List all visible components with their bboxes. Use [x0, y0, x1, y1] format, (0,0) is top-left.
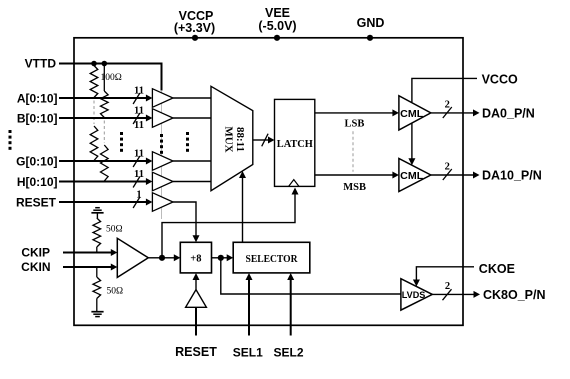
latch block	[275, 99, 315, 186]
svg-text:LATCH: LATCH	[277, 138, 313, 150]
svg-text:VCCO: VCCO	[482, 72, 518, 86]
resistor R5 50ohm (CKIP termination)	[93, 218, 101, 253]
svg-text:1: 1	[136, 190, 141, 201]
clock buffer U8	[117, 238, 148, 277]
svg-text:MSB: MSB	[343, 182, 366, 193]
svg-text:SEL2: SEL2	[273, 345, 303, 359]
bus slash RESET	[133, 197, 140, 208]
svg-text:(+3.3V): (+3.3V)	[174, 21, 215, 35]
wire divider output	[212, 257, 221, 259]
net label LSB	[345, 118, 365, 129]
node divider output	[218, 255, 224, 261]
value label 50ohm (R6)	[107, 287, 124, 297]
bus width label 11 (ellipsis)	[134, 120, 144, 131]
bus width label 11 (B[0:10])	[134, 106, 144, 117]
value label 50ohm (R5)	[106, 224, 123, 234]
wire reset buffer to divider	[193, 273, 200, 290]
wire RESET buffer to divider	[173, 202, 200, 242]
wire clock buffer output	[148, 257, 162, 259]
wire dashed continuation (column 2)	[103, 121, 105, 144]
pin label RESET	[16, 195, 57, 209]
svg-text:CK8O_P/N: CK8O_P/N	[483, 288, 546, 302]
ground (flipped, above R5)	[91, 208, 103, 218]
latch clock caret	[289, 180, 299, 187]
ground (below R6)	[91, 312, 103, 317]
pin label SEL2	[273, 345, 303, 359]
svg-text:50Ω: 50Ω	[107, 287, 124, 297]
svg-text:SEL1: SEL1	[233, 345, 263, 359]
ellipsis (buffer column)	[160, 134, 163, 154]
wire RESET bottom entry	[195, 307, 197, 335]
pin label SEL1	[233, 345, 263, 359]
wire divider to LVDS	[221, 258, 401, 294]
pin label CKIP	[21, 245, 50, 259]
resistor R6 50ohm (CKIN termination)	[93, 267, 101, 312]
bus width label 2 (DA10)	[445, 162, 450, 173]
svg-text:RESET: RESET	[175, 345, 217, 359]
wire input G[0:10]	[59, 158, 152, 165]
pin label B[0:10]	[17, 111, 58, 125]
wire SEL2	[287, 273, 294, 336]
svg-text:2: 2	[445, 162, 450, 173]
wire clock to divider	[162, 254, 180, 261]
svg-text:SELECTOR: SELECTOR	[246, 253, 298, 265]
pin label H[0:10]	[17, 175, 58, 189]
node clock junction	[159, 255, 165, 261]
svg-text:LVDS: LVDS	[402, 290, 426, 300]
wire selector to MUX	[239, 171, 246, 242]
wire VTTD rail continuation (faint)	[161, 91, 163, 219]
buffer U2	[152, 109, 173, 128]
svg-text:11: 11	[134, 169, 144, 180]
svg-text:RESET: RESET	[16, 195, 57, 209]
wire MUX to LATCH	[253, 137, 275, 144]
pin label VTTD	[25, 57, 57, 71]
wire buffer U1 to MUX	[173, 97, 212, 99]
svg-text:CKIN: CKIN	[21, 260, 50, 274]
wire divider to selector	[221, 254, 233, 261]
svg-text:H[0:10]: H[0:10]	[17, 175, 58, 189]
svg-text:11: 11	[134, 149, 144, 160]
pin label G[0:10]	[16, 154, 57, 168]
wire dashed continuation (column 1)	[93, 101, 95, 125]
pin label VCCO	[482, 72, 518, 86]
wire input RESET	[59, 199, 152, 206]
bus width label 11 (H[0:10])	[134, 169, 144, 180]
wire input B[0:10]	[59, 115, 152, 122]
cml buffer U7	[399, 159, 431, 192]
svg-text:CKIP: CKIP	[21, 245, 50, 259]
bus slash DA10	[443, 169, 452, 180]
bus slash B[0:10]	[133, 113, 140, 124]
bus slash A[0:10]	[133, 93, 140, 104]
svg-text:11: 11	[134, 106, 144, 117]
wire input CKIN	[63, 264, 117, 271]
ellipsis dashed (LSB to MSB)	[352, 131, 354, 172]
svg-text:DA10_P/N: DA10_P/N	[482, 168, 542, 182]
svg-text:11: 11	[134, 120, 144, 131]
svg-text:VTTD: VTTD	[25, 57, 57, 71]
bus width label 2 (DA0)	[445, 100, 450, 111]
bus width label 11 (A[0:10])	[134, 86, 144, 97]
svg-text:G[0:10]: G[0:10]	[16, 154, 57, 168]
lvds buffer U10	[401, 279, 432, 310]
cml buffer U6	[399, 96, 431, 130]
wire output DA0	[431, 109, 480, 116]
wire input A[0:10]	[59, 95, 152, 102]
svg-text:11: 11	[134, 86, 144, 97]
svg-text:CML: CML	[400, 108, 424, 120]
power pin VEE	[258, 6, 296, 41]
node VTTD-R2	[102, 61, 108, 67]
wire CKOE	[413, 267, 474, 287]
pin label CK8O_P/N	[483, 288, 546, 302]
bus slash DA0	[443, 107, 452, 118]
svg-text:A[0:10]: A[0:10]	[17, 91, 58, 105]
resistor R3 (to G)	[90, 126, 98, 161]
svg-text:MUX: MUX	[223, 126, 235, 152]
wire VTTD rail	[59, 64, 162, 91]
svg-text:CML: CML	[400, 170, 424, 182]
svg-text:B[0:10]: B[0:10]	[17, 111, 58, 125]
pin label CKOE	[479, 262, 515, 276]
wire input CKIP	[63, 249, 117, 256]
buffer U9 (reset, open)	[186, 290, 207, 308]
svg-text:DA0_P/N: DA0_P/N	[482, 106, 535, 120]
pin label DA0_P/N	[482, 106, 535, 120]
svg-text:2: 2	[445, 281, 450, 292]
pin label DA10_P/N	[482, 168, 542, 182]
wire MSB (LATCH to CML U7)	[315, 172, 399, 179]
svg-text:+8: +8	[190, 253, 201, 264]
bus slash MUX output	[262, 134, 268, 147]
buffer U4	[152, 172, 173, 191]
bus slash G[0:10]	[133, 156, 140, 167]
wire input H[0:10]	[59, 178, 152, 185]
buffer U3	[152, 152, 173, 171]
node VTTD-R1	[91, 61, 97, 67]
wire output CK8O	[432, 291, 480, 298]
bus width label 2 (CK8O)	[445, 281, 450, 292]
pin label A[0:10]	[17, 91, 58, 105]
mux 88:11	[211, 86, 253, 190]
bus slash H[0:10]	[133, 177, 140, 188]
power pin VCCP	[174, 9, 215, 41]
pin label CKIN	[21, 260, 50, 274]
power pin GND	[357, 16, 385, 41]
divider block +8	[180, 242, 211, 273]
bus width label 11 (G[0:10])	[134, 149, 144, 160]
svg-text:GND: GND	[357, 16, 385, 30]
ellipsis (resistor column)	[120, 132, 123, 152]
svg-text:88:11: 88:11	[234, 127, 246, 152]
chip boundary box	[74, 38, 463, 326]
wire VCCO	[412, 78, 477, 102]
wire buffer U3 to MUX	[173, 160, 212, 162]
wire LSB (LATCH to CML U6)	[315, 109, 399, 116]
bus width label 1 (RESET)	[136, 190, 141, 201]
svg-text:50Ω: 50Ω	[106, 224, 123, 234]
svg-text:CKOE: CKOE	[479, 262, 515, 276]
ellipsis (mux inputs)	[186, 132, 189, 152]
buffer U1	[152, 89, 173, 108]
wire clock to latch	[162, 188, 299, 258]
resistor R1 100ohm (VTTD to A)	[90, 66, 98, 98]
svg-text:VEE: VEE	[265, 6, 290, 20]
value label 100ohm	[101, 73, 122, 83]
resistor R4 (to H)	[101, 145, 109, 181]
wire buffer U2 to MUX	[173, 117, 212, 119]
net label MSB	[343, 182, 366, 193]
wire CML chain (U6 to U7)	[408, 123, 415, 165]
pin label RESET (bottom)	[175, 345, 217, 359]
wire buffer U4 to MUX	[173, 181, 212, 183]
svg-text:2: 2	[445, 100, 450, 111]
svg-text:LSB: LSB	[345, 118, 365, 129]
resistor R2 (VTTD to B)	[101, 64, 109, 118]
selector block	[233, 242, 310, 273]
bus slash CK8O	[443, 289, 452, 300]
svg-text:(-5.0V): (-5.0V)	[258, 19, 296, 33]
wire SEL1	[246, 273, 253, 336]
ellipsis (input labels)	[9, 130, 12, 150]
wire output DA10	[431, 172, 480, 179]
buffer U5	[152, 193, 173, 212]
